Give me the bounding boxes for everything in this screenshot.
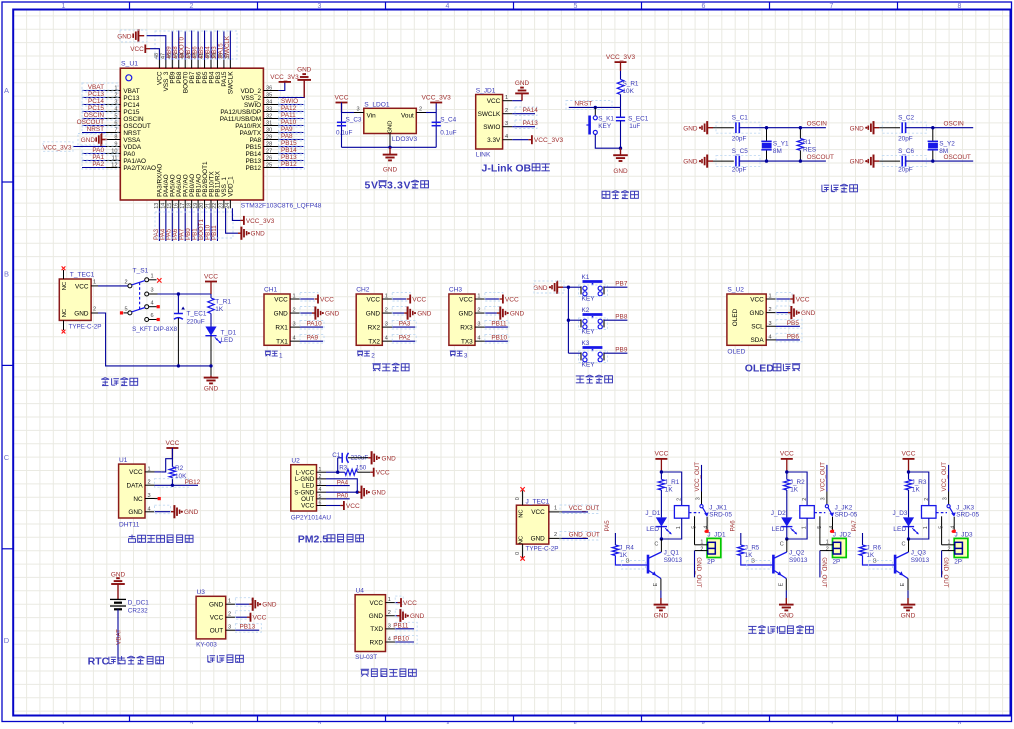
pin 6 OSCOUT U1 left — [106, 125, 120, 127]
pin 30 PA9/TX U1 right — [263, 132, 278, 134]
wire bus to K1 — [568, 286, 581, 288]
power port VCC_3V3 (J-Link) — [528, 139, 532, 141]
svg-text:13: 13 — [154, 203, 160, 209]
wire CH3 pin2 to GND — [485, 312, 497, 314]
svg-text:3: 3 — [357, 106, 360, 112]
relay switch arm 1 — [700, 505, 703, 508]
wire coil bottom 1 — [661, 518, 681, 539]
wire net PB3 (top) — [216, 31, 218, 61]
pin 3 RX1 CH1 — [290, 326, 300, 328]
wire JD1 pin1 to GND — [512, 100, 522, 102]
wire base 2 — [741, 556, 773, 566]
svg-text:4: 4 — [319, 487, 322, 493]
ground symbol (S-GND) — [358, 491, 361, 493]
pin 2 GND T_TEC1 — [91, 312, 98, 314]
svg-text:3: 3 — [293, 322, 296, 328]
svg-text:S9013: S9013 — [664, 557, 683, 564]
relay switch arm 3 — [947, 505, 950, 508]
relay coil J_JK3 — [922, 506, 937, 519]
svg-text:PA10/RX: PA10/RX — [235, 123, 262, 130]
wire coil bottom 2 — [787, 518, 807, 539]
svg-text:PC14: PC14 — [123, 102, 139, 109]
pin 1 VCC CH1 — [290, 298, 300, 300]
svg-text:19: 19 — [193, 203, 199, 209]
pin 4 TX1 CH1 — [290, 340, 300, 342]
svg-text:LDO3V3: LDO3V3 — [392, 136, 418, 143]
svg-text:4: 4 — [446, 3, 450, 10]
svg-text:U2: U2 — [291, 458, 300, 465]
svg-text:VSSA: VSSA — [123, 137, 141, 144]
svg-text:S_C4: S_C4 — [440, 116, 456, 123]
svg-text:GND: GND — [383, 167, 398, 174]
capacitor S_C2 20pF — [901, 122, 903, 133]
svg-text:GND_OUT: GND_OUT — [695, 557, 702, 587]
svg-text:VDD_2: VDD_2 — [240, 88, 261, 95]
no-connect pin bottom J_TEC1 — [522, 544, 524, 557]
svg-text:GND: GND — [850, 159, 865, 166]
wire NRST to K1 — [594, 107, 596, 115]
svg-text:GND: GND — [184, 509, 199, 516]
svg-text:PA8: PA8 — [249, 137, 261, 144]
wire net SWIO — [279, 104, 304, 106]
svg-text:28: 28 — [266, 141, 272, 147]
wire net OSCOUT — [82, 125, 106, 127]
svg-text:S_EC1: S_EC1 — [628, 115, 649, 122]
svg-text:SWCLK: SWCLK — [228, 71, 235, 94]
connector CH3 body — [449, 294, 475, 345]
svg-text:RTC: RTC — [88, 656, 110, 668]
svg-text:8: 8 — [958, 3, 962, 10]
junction R1 top — [799, 126, 802, 129]
pin 39 PB3 U1 top — [216, 60, 218, 68]
relay pin5 1 — [694, 516, 696, 545]
svg-text:VCC_OUT: VCC_OUT — [694, 462, 701, 492]
svg-text:VCC: VCC — [301, 503, 315, 510]
pin 1 VCC CH2 — [382, 298, 392, 300]
wire net PA12 — [279, 111, 304, 113]
svg-text:GND: GND — [369, 613, 384, 620]
svg-text:NRST: NRST — [87, 126, 104, 133]
svg-text:3: 3 — [318, 3, 322, 10]
svg-text:VCC_OUT: VCC_OUT — [820, 462, 827, 492]
pin 14 PA4/AO U1 bottom — [165, 200, 167, 208]
pin 2 VCC U3 — [226, 616, 236, 618]
pin 1 VCC S_U2 — [766, 298, 776, 300]
pin 37 SWCLK U1 top — [229, 60, 231, 68]
pin 6 VCC U2 PM2.5 — [317, 505, 327, 507]
wire net SWCLK (top) — [229, 31, 231, 61]
wire CH2 pin1 to VCC — [392, 298, 406, 300]
wire net PB12 — [279, 167, 304, 169]
svg-text:A: A — [4, 86, 9, 95]
svg-text:TYPE-C-2P: TYPE-C-2P — [69, 323, 102, 330]
svg-text:GND_OUT: GND_OUT — [821, 557, 828, 587]
svg-text:3: 3 — [385, 322, 388, 328]
wire K2 to net PB8 — [604, 319, 627, 321]
wire pin5 net PA0 — [326, 498, 350, 500]
wire net PC15 — [82, 111, 106, 113]
no-connect marks T_S1 — [157, 278, 161, 282]
wire bus to K3 — [568, 352, 581, 354]
resistor J_R3 1K — [905, 479, 911, 490]
junction R2/DATA — [171, 484, 174, 487]
wire net PA11 — [279, 118, 304, 120]
svg-text:V: V — [371, 180, 378, 192]
wire connector pin2 to GND_OUT 3 — [942, 550, 955, 552]
pin 3 NC DHT11 — [145, 498, 155, 500]
wire net PA8 — [279, 139, 304, 141]
connector S_JD1 body — [476, 95, 503, 150]
wire pin1 to R3 — [338, 471, 345, 473]
svg-text:VCC: VCC — [367, 296, 381, 303]
svg-text:S_LDO1: S_LDO1 — [364, 101, 390, 108]
svg-text:8M: 8M — [939, 148, 948, 155]
junction vcc split 2 — [785, 470, 788, 473]
ground symbol (U3) — [249, 603, 252, 605]
wire K1 to net PB7 — [604, 286, 627, 288]
wire CH1 pin1 to VCC — [300, 298, 314, 300]
no-connect pin 0 top T_TEC1 — [63, 270, 65, 279]
resistor R3 150 — [345, 469, 358, 475]
junction vcc split 3 — [907, 470, 910, 473]
svg-text:6: 6 — [319, 501, 322, 507]
wire net PB6 (top) — [197, 31, 199, 61]
relay pin4 2 — [832, 517, 834, 530]
wire base 1 — [615, 556, 647, 566]
svg-text:KEY: KEY — [582, 295, 596, 302]
svg-text:NC: NC — [519, 509, 525, 517]
svg-text:SRD-05: SRD-05 — [956, 511, 979, 518]
svg-text:S_K1: S_K1 — [598, 115, 614, 122]
svg-text:J_R5: J_R5 — [745, 545, 760, 552]
svg-text:J_JK1: J_JK1 — [709, 504, 727, 511]
svg-text:PB6: PB6 — [787, 333, 800, 340]
svg-text:GND: GND — [262, 602, 277, 609]
svg-text:GND: GND — [654, 613, 669, 620]
svg-text:J_JK3: J_JK3 — [956, 504, 974, 511]
svg-text:2: 2 — [419, 106, 422, 112]
capacitor S_C4 — [432, 121, 441, 123]
wire LED to GND — [210, 336, 212, 376]
wire collector 2 — [786, 539, 788, 552]
wire net PA5 (bottom) — [171, 208, 173, 241]
wire collector 1 — [660, 539, 662, 552]
svg-text:14: 14 — [161, 203, 167, 209]
svg-text:VCC: VCC — [487, 98, 501, 105]
wire JD1 pin4 to VCC_3V3 — [512, 139, 528, 141]
wire connector pin1 1 — [695, 544, 708, 546]
capacitor T_EC1 220uF — [177, 294, 179, 314]
svg-text:KEY: KEY — [598, 123, 612, 130]
svg-text:VCC: VCC — [204, 273, 218, 280]
svg-text:1K: 1K — [665, 487, 674, 494]
pin 1 VCC J_TEC1 — [549, 511, 562, 513]
pin 3 TXD U4 — [386, 628, 396, 630]
pin 32 PA11/USB/DM U1 right — [263, 118, 278, 120]
wire U2 pin1 to VCC — [776, 298, 790, 300]
pin 13 PA3/RX/AO U1 bottom — [158, 200, 160, 208]
wire U3 pin1 to GND — [235, 603, 249, 605]
svg-text:GND: GND — [410, 613, 425, 620]
wire S_C6 to net — [906, 160, 974, 162]
svg-text:OSCOUT: OSCOUT — [944, 154, 971, 161]
display S_U2 OLED body — [727, 294, 766, 345]
svg-text:J_Q2: J_Q2 — [789, 550, 805, 557]
wire net PB10 (bottom) — [210, 208, 212, 241]
svg-text:K2: K2 — [582, 307, 590, 314]
wire collector 3 — [908, 539, 910, 552]
module U4 SU-03T body — [355, 595, 385, 652]
svg-text:VCC_3V3: VCC_3V3 — [270, 74, 299, 81]
svg-text:NC: NC — [133, 496, 143, 503]
svg-text:2: 2 — [388, 610, 391, 616]
svg-text:1: 1 — [293, 294, 296, 300]
junction LDO gnd — [388, 146, 391, 149]
svg-text:PB5: PB5 — [787, 320, 800, 327]
svg-text:GND: GND — [779, 613, 794, 620]
pin 5 OSCIN U1 left — [106, 118, 120, 120]
led J_D1 LED — [656, 517, 667, 526]
svg-text:VCC_3V3: VCC_3V3 — [422, 94, 452, 101]
svg-text:5: 5 — [319, 494, 322, 500]
svg-text:SU-03T: SU-03T — [355, 654, 377, 661]
connector CH1 body — [264, 294, 290, 345]
svg-text:2: 2 — [385, 308, 388, 314]
svg-text:GND: GND — [382, 455, 397, 462]
svg-text:J_JK2: J_JK2 — [835, 504, 853, 511]
svg-text:GND: GND — [683, 159, 698, 166]
relay switch dashed link 2 — [814, 512, 825, 514]
pin 3 Vin — [354, 112, 364, 114]
junction C node 2 — [785, 537, 788, 540]
junction crystal top — [765, 126, 768, 129]
wire net OSCIN — [82, 118, 106, 120]
wire net BOOT0 (top) — [184, 31, 186, 61]
svg-text:VCC: VCC — [796, 296, 810, 303]
wire connector pin1 3 — [942, 544, 955, 546]
pin 12 PA2/TX/AO U1 left — [106, 167, 120, 169]
pin 4 PC15 U1 left — [106, 111, 120, 113]
svg-text:GND: GND — [749, 310, 764, 317]
svg-text:21: 21 — [206, 203, 212, 209]
svg-text:5: 5 — [817, 526, 823, 529]
ground symbol (OLED) — [788, 312, 791, 314]
key switch K2 KEY — [580, 319, 582, 327]
sensor U3 KY-003 body — [196, 596, 226, 639]
svg-text:GND: GND — [372, 490, 387, 497]
svg-text:15: 15 — [167, 203, 173, 209]
svg-text:K1: K1 — [582, 274, 590, 281]
svg-text:C: C — [780, 542, 784, 548]
junction crystal bottom — [765, 159, 768, 162]
pin 2 DATA DHT11 — [145, 484, 155, 486]
svg-text:2: 2 — [948, 546, 951, 552]
pin 17 PA7/AO U1 bottom — [184, 200, 186, 208]
pin 3 OUT U3 — [226, 629, 236, 631]
svg-text:PA0: PA0 — [123, 151, 135, 158]
svg-text:LED: LED — [221, 337, 234, 344]
svg-text:SRD-05: SRD-05 — [835, 511, 858, 518]
pin 45 PB8 U1 top — [178, 60, 180, 68]
svg-text:B: B — [873, 559, 877, 565]
pin 3 SCL S_U2 — [766, 325, 776, 327]
svg-text:10K: 10K — [623, 88, 635, 95]
svg-text:PB13: PB13 — [240, 624, 256, 631]
svg-text:CR232: CR232 — [128, 608, 148, 615]
svg-text:1: 1 — [505, 95, 508, 101]
svg-text:5: 5 — [691, 526, 697, 529]
svg-text:LED: LED — [893, 526, 906, 533]
wire U3 pin3 net PB13 — [235, 629, 259, 631]
svg-text:VCC: VCC — [412, 296, 426, 303]
pin 43 PB7 U1 top — [191, 60, 193, 68]
svg-text:C: C — [654, 542, 658, 548]
svg-text:PM2.5: PM2.5 — [298, 534, 329, 546]
relay switch common pin3 1 — [701, 465, 703, 492]
no-connect pin top J_TEC1 — [522, 491, 524, 506]
svg-text:PA9/TX: PA9/TX — [240, 130, 262, 137]
svg-text:NC: NC — [519, 536, 525, 544]
svg-text:4: 4 — [388, 636, 391, 642]
caption serial port 2 — [357, 350, 363, 352]
svg-text:1K: 1K — [790, 487, 799, 494]
svg-text:24: 24 — [225, 203, 231, 209]
svg-text:8M: 8M — [773, 148, 782, 155]
wire CH3 pin4 net PB10 — [485, 340, 508, 342]
resistor R1 RES — [799, 128, 801, 139]
crystal S_Y2 8M — [932, 128, 934, 142]
op-amp-block MCU S_U1 body — [120, 68, 263, 200]
wire R to LED 2 — [786, 490, 788, 517]
capacitor S_C5 20pF — [735, 156, 737, 167]
resistor S_R1 10K — [617, 79, 623, 94]
pin 2 L-GND U2 PM2.5 — [317, 478, 327, 480]
sensor U2 GP2Y1014AU body — [291, 465, 317, 511]
pin 26 PB13 U1 right — [263, 160, 278, 162]
junction NRST/K1 — [594, 106, 597, 109]
pin 35 VSS_2 U1 right — [263, 97, 278, 99]
svg-text:J_JD2: J_JD2 — [833, 532, 852, 539]
wire pin47 to GND — [147, 36, 166, 60]
pin 3 RX2 CH2 — [382, 326, 392, 328]
wire K1/EC1 to GND — [595, 134, 620, 148]
svg-text:CH3: CH3 — [449, 287, 463, 294]
pin 2 SWCLK S_JD1 — [503, 113, 513, 115]
svg-text:GND: GND — [74, 311, 89, 318]
svg-text:J_D2: J_D2 — [771, 510, 786, 517]
svg-text:PB10: PB10 — [393, 636, 409, 643]
svg-text:VDD_1: VDD_1 — [228, 176, 235, 197]
svg-text:S_C2: S_C2 — [898, 115, 914, 122]
svg-text:T_D1: T_D1 — [221, 330, 237, 337]
wire net PC13 — [82, 97, 106, 99]
svg-text:SWCLK: SWCLK — [224, 35, 231, 58]
svg-text:2P: 2P — [954, 559, 962, 566]
wire net NRST — [569, 106, 621, 108]
svg-text:PA5: PA5 — [604, 520, 611, 532]
wire node to C1 — [337, 458, 339, 472]
wire U2 pin2 to GND — [776, 312, 788, 314]
svg-text:J_TEC1: J_TEC1 — [526, 498, 550, 505]
power port VCC (OLED) — [790, 298, 794, 300]
connector CH2 body — [356, 294, 382, 345]
wire CH1 pin3 net PA10 — [300, 326, 323, 328]
svg-text:4: 4 — [477, 336, 480, 342]
wire C1 to GND — [348, 457, 368, 459]
wire U4 pin4 net PB10 — [395, 641, 414, 643]
wire LDO ground rail — [342, 146, 437, 148]
svg-text:LINK: LINK — [476, 151, 491, 158]
svg-text:T_TEC1: T_TEC1 — [70, 272, 95, 279]
wire net VCC_OUT — [562, 511, 588, 513]
wire pin3 net PA4 — [326, 485, 350, 487]
svg-text:U3: U3 — [197, 589, 206, 596]
wire U4 pin1 to VCC — [395, 602, 397, 604]
pin 1 VBAT U1 left — [106, 90, 120, 92]
pin 4 S-GND U2 PM2.5 — [317, 491, 327, 493]
wire LED cathode 1 — [660, 527, 662, 539]
wire LED cathode 3 — [908, 527, 910, 539]
svg-text:VCC_OUT: VCC_OUT — [941, 462, 948, 492]
ground symbol (U4) — [397, 615, 400, 617]
wire net PB14 — [279, 153, 304, 155]
led T_D1 LED — [205, 327, 216, 336]
svg-text:E: E — [779, 583, 785, 587]
svg-text:E: E — [900, 583, 906, 587]
pin 20 PB2/BOOT1 U1 bottom — [204, 200, 206, 208]
svg-text:12: 12 — [111, 162, 117, 168]
pin 4 GND DHT11 — [145, 511, 155, 513]
junction C node 1 — [660, 537, 663, 540]
svg-text:S_JD1: S_JD1 — [476, 88, 496, 95]
wire net GND_OUT — [562, 537, 588, 539]
pin 3 RX3 CH3 — [475, 326, 485, 328]
svg-text:GND: GND — [613, 168, 628, 175]
svg-text:3: 3 — [388, 623, 391, 629]
pin 1 GND U3 — [226, 603, 236, 605]
svg-text:2: 2 — [554, 532, 557, 538]
wire net PB8 (top) — [178, 31, 180, 61]
pin 2 GND CH2 — [382, 312, 392, 314]
svg-text:J_Q3: J_Q3 — [911, 550, 927, 557]
transistor J_Q3 S9013 — [894, 555, 897, 574]
ground symbol (CH3) — [497, 312, 500, 314]
junction bottom rail — [209, 364, 212, 367]
svg-text:J_R2: J_R2 — [790, 479, 805, 486]
pin 18 PB0/AO U1 bottom — [191, 200, 193, 208]
pin 2 Vout — [416, 112, 426, 114]
svg-text:3: 3 — [228, 625, 231, 631]
no-connect pin 0 bottom T_TEC1 — [63, 320, 65, 330]
resistor R2 10K — [169, 467, 175, 478]
svg-text:R2: R2 — [175, 465, 184, 472]
wire connector pin2 to GND_OUT 2 — [820, 550, 833, 552]
svg-text:GND: GND — [128, 509, 143, 516]
pin 7 NRST U1 left — [106, 132, 120, 134]
junction EC1 top — [177, 292, 180, 295]
resistor J_R2 1K — [784, 479, 790, 490]
pin 11 PA1/AO U1 left — [106, 160, 120, 162]
wire R to LED 1 — [660, 490, 662, 517]
svg-text:16: 16 — [173, 203, 179, 209]
pin 28 PB15 U1 right — [263, 146, 278, 148]
svg-text:PA3: PA3 — [399, 321, 411, 328]
svg-text:3: 3 — [319, 481, 322, 487]
svg-text:PA12/USB/DP: PA12/USB/DP — [220, 109, 261, 116]
pin 16 PA6/AO U1 bottom — [178, 200, 180, 208]
svg-text:2P: 2P — [833, 559, 841, 566]
wire coil bottom 3 — [909, 518, 929, 539]
